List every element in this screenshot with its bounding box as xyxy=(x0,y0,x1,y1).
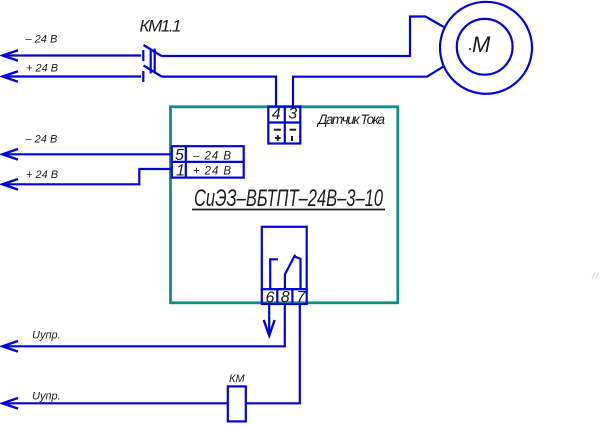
contactor KM1.1 pole 1 xyxy=(143,45,161,61)
wire -24V input with arrow xyxy=(3,50,142,61)
relay output box xyxy=(262,227,307,289)
coil KM xyxy=(228,386,246,421)
svg-text:– 24 В: – 24 В xyxy=(192,150,231,162)
polarity mark minus-i under pin 3 xyxy=(290,130,297,141)
polarity mark minus-plus under pin 4 xyxy=(274,130,281,141)
wire terminal 7 to coil KM xyxy=(246,304,300,403)
wire +24V to terminal 4 xyxy=(162,77,277,107)
wire +24V to terminal 1 with arrow xyxy=(3,169,172,190)
svg-text:5: 5 xyxy=(175,147,184,164)
dot before M xyxy=(469,48,471,50)
wire terminal 6 output arrow down xyxy=(264,304,275,336)
underline of designation xyxy=(192,209,385,211)
motor M1 inner circle xyxy=(457,19,513,75)
relay contact fixed terminal 7 xyxy=(294,256,300,289)
svg-text:+ 24 В: + 24 В xyxy=(26,63,58,75)
svg-text:– 24 В: – 24 В xyxy=(25,34,58,46)
svg-text:7: 7 xyxy=(297,289,307,306)
svg-text:8: 8 xyxy=(281,289,290,306)
wire -24V to terminal 5 with arrow xyxy=(3,149,172,160)
svg-text:М: М xyxy=(472,32,491,57)
contactor KM1.1 mechanical link xyxy=(151,49,155,74)
relay contact blade terminal 8 xyxy=(285,255,295,289)
wire terminal 3 to motor xyxy=(293,67,443,107)
svg-text:Uупр.: Uупр. xyxy=(32,330,61,342)
svg-text:+ 24 В: + 24 В xyxy=(193,166,231,178)
svg-text:4: 4 xyxy=(272,106,281,123)
svg-text:СиЭЗ–ВБТПТ–24В–3–10: СиЭЗ–ВБТПТ–24В–3–10 xyxy=(194,185,383,212)
current sensor unit box (Datchik Toka) xyxy=(171,107,398,303)
svg-text:Датчик Тока: Датчик Тока xyxy=(316,112,385,127)
svg-text:Uупр.: Uупр. xyxy=(32,391,61,403)
terminal block 4-3 xyxy=(268,107,300,144)
wire Uupr to coil with arrow xyxy=(3,398,228,409)
terminal block 5-1 xyxy=(172,146,244,177)
svg-text:КМ: КМ xyxy=(229,373,245,385)
motor M1 outer circle xyxy=(440,2,532,94)
svg-text:1: 1 xyxy=(176,163,185,180)
svg-text:3: 3 xyxy=(288,106,297,123)
svg-text:6: 6 xyxy=(266,289,275,306)
svg-text:+ 24 В: + 24 В xyxy=(26,169,58,181)
wire -24V to motor xyxy=(162,17,444,57)
wire +24V input with arrow xyxy=(3,71,142,82)
svg-text:КМ1.1: КМ1.1 xyxy=(140,17,182,36)
svg-text:– 24 В: – 24 В xyxy=(25,134,58,146)
relay contact fixed terminal 6 xyxy=(270,259,278,289)
faint scan artifact right edge xyxy=(592,272,599,279)
terminal block 6-8-7 xyxy=(262,289,307,304)
wire Uupr from terminal 8 with arrow xyxy=(3,304,285,352)
contactor KM1.1 pole 2 xyxy=(143,66,161,83)
